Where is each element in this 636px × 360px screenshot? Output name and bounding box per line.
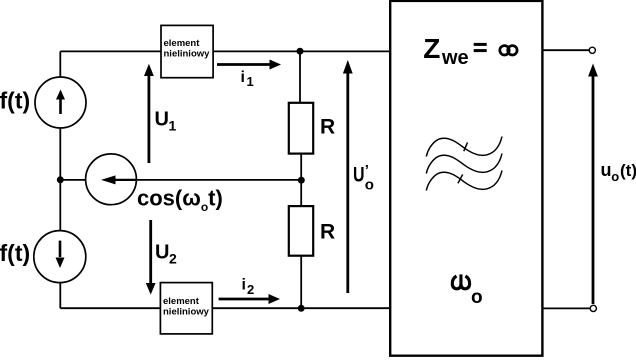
junction dot node top: [297, 48, 304, 55]
svg-text:U: U: [353, 162, 365, 186]
svg-text:2: 2: [247, 282, 254, 297]
svg-text:R: R: [320, 115, 335, 138]
wire filter output top: [543, 49, 590, 51]
label omega_o: [452, 274, 469, 288]
svg-text:1: 1: [169, 117, 177, 133]
wire R2 to bottom: [300, 257, 302, 309]
filter wave symbol 1: [426, 137, 502, 157]
svg-text:i: i: [242, 277, 246, 294]
svg-text:we: we: [441, 47, 469, 69]
wire bottom horizontal: [60, 307, 390, 309]
wire R1 to R2: [300, 155, 302, 207]
svg-text:U: U: [155, 242, 169, 264]
junction dot node left-mid: [57, 176, 64, 183]
svg-text:o: o: [471, 287, 483, 308]
output terminal bottom: [590, 305, 596, 311]
svg-text:i: i: [241, 69, 245, 86]
filter block (box): [390, 1, 542, 356]
current source f(t) top: [35, 77, 86, 128]
svg-text:cos(ωot): cos(ωot): [137, 186, 223, 215]
junction dot node bottom: [298, 305, 305, 312]
nonlinear element box bottom: [160, 283, 212, 334]
wire filter output bottom: [543, 307, 591, 309]
svg-text:element: element: [163, 296, 200, 307]
current source f(t) bottom: [34, 231, 86, 283]
label Zwe = infinity: [423, 33, 517, 69]
arrow U2: [146, 220, 156, 295]
filter wave 3 tick: [458, 175, 463, 184]
filter wave symbol 2: [426, 154, 502, 174]
arrow Uo': [343, 60, 353, 293]
svg-text:2: 2: [169, 250, 177, 266]
filter wave 1 tick: [464, 143, 468, 152]
svg-text:nieliniowy: nieliniowy: [164, 49, 211, 60]
wire middle horizontal right: [130, 179, 301, 181]
svg-text:nieliniowy: nieliniowy: [163, 307, 210, 318]
svg-text:f(t): f(t): [0, 240, 30, 266]
current source cos (middle): [86, 154, 137, 205]
svg-text:o: o: [611, 169, 619, 184]
svg-text:1: 1: [247, 74, 254, 89]
wire left vertical lower: [59, 283, 61, 309]
wire junction to R1: [299, 51, 301, 102]
arrow U1: [144, 64, 154, 163]
resistor R1: [289, 103, 313, 154]
svg-text:Z: Z: [423, 33, 440, 64]
svg-text:(t): (t): [620, 161, 636, 180]
output terminal top: [589, 47, 595, 53]
svg-text:element: element: [164, 38, 201, 49]
wire left vertical upper: [59, 51, 61, 78]
resistor R2: [289, 206, 313, 256]
filter wave symbol 3: [426, 171, 502, 191]
svg-text:U: U: [155, 108, 169, 130]
arrow i2: [219, 294, 280, 304]
svg-text:o: o: [365, 177, 374, 194]
svg-text:u: u: [601, 160, 612, 180]
arrow i1: [217, 60, 281, 70]
svg-text:R: R: [320, 220, 335, 243]
svg-text:f(t): f(t): [0, 88, 30, 114]
nonlinear element box top: [161, 25, 213, 77]
junction dot node mid: [298, 177, 305, 184]
wire left vertical middle: [59, 128, 61, 232]
wire top horizontal (node A to filter input): [60, 50, 390, 52]
arrow uo(t): [588, 64, 598, 305]
wire middle horizontal left: [60, 179, 90, 181]
